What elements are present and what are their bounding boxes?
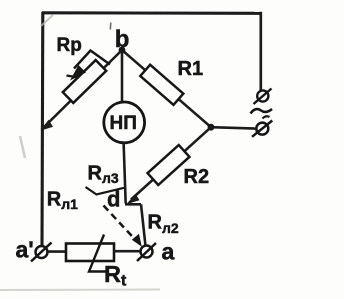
terminal a' xyxy=(31,243,52,262)
scan artifact: small fleck left of b xyxy=(109,23,112,30)
dashed arrow from d area to node a xyxy=(104,206,138,242)
terminal a xyxy=(137,243,156,261)
wire: a' to Rt xyxy=(48,250,68,253)
AC source tilde symbol xyxy=(251,109,273,114)
wire: R2 arm (right node to d) with arrowhead at d xyxy=(131,127,211,199)
svg-text:Rл1: Rл1 xyxy=(47,189,78,213)
svg-text:НП: НП xyxy=(110,113,137,134)
scan artifact: faint grey streak left of wire xyxy=(20,136,25,158)
node b xyxy=(119,47,126,54)
wire: null indicator down to d xyxy=(124,143,126,204)
resistor Rt body xyxy=(66,244,114,262)
svg-text:Rt: Rt xyxy=(104,261,127,290)
wire: right leg down to node a xyxy=(141,204,146,246)
wire: Rp arm (b to left wire) xyxy=(42,50,123,130)
Rt pointer diagonal xyxy=(89,235,107,272)
meter НП (null indicator) xyxy=(104,102,145,143)
AC tilde small lower tick xyxy=(263,116,270,118)
scan artifact: faint bottom edge line xyxy=(0,289,160,292)
svg-text:R1: R1 xyxy=(178,58,204,80)
Rp wiper arrow xyxy=(74,51,110,69)
wire: top horizontal xyxy=(42,11,261,15)
wire: R1 arm (b to right node) xyxy=(122,50,211,127)
wire: bridge right node to lower supply terminal xyxy=(211,127,256,128)
node: bridge right xyxy=(208,124,215,131)
wire: d corner horizontal xyxy=(125,203,141,206)
resistor Rp body xyxy=(63,60,106,103)
terminal: upper AC supply xyxy=(254,89,272,105)
leader bracket under Rл3 xyxy=(86,187,125,195)
arrowhead at left-wire junction xyxy=(41,120,54,131)
svg-text:a: a xyxy=(162,239,175,265)
svg-text:Rл3: Rл3 xyxy=(88,163,119,187)
svg-text:R2: R2 xyxy=(184,166,210,188)
wire: right vertical drop to supply xyxy=(259,12,262,90)
svg-text:Rл2: Rл2 xyxy=(148,212,179,237)
svg-text:b: b xyxy=(115,26,130,53)
svg-text:a': a' xyxy=(16,236,34,262)
wire: Rt to node a xyxy=(114,250,141,253)
svg-text:Rp: Rp xyxy=(57,35,82,56)
scan artifact: faint streak under top-left corner xyxy=(41,15,53,26)
resistor R2 body xyxy=(148,145,190,185)
wire: b down to null indicator xyxy=(121,50,124,103)
wire: left vertical xyxy=(40,12,44,246)
resistor R1 body xyxy=(140,65,183,105)
terminal: lower AC supply xyxy=(252,121,272,137)
